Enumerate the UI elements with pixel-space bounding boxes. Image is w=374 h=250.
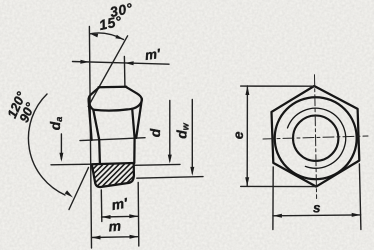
arrowheads dimension m prime bottom (102, 215, 111, 219)
svg-text:e: e (230, 131, 246, 139)
washer boss sides (98, 140, 101, 164)
thread major diameter arc (288, 108, 346, 168)
nut top face (99, 86, 127, 89)
chamfer corner right (126, 87, 142, 109)
extension line e top (241, 85, 315, 87)
svg-text:m′: m′ (144, 46, 162, 63)
angle dimension arc 120-90deg (28, 94, 65, 195)
lower inner slants (93, 110, 99, 140)
centerline vertical (315, 75, 317, 199)
bearing surface line (80, 138, 145, 141)
arrowhead 120-90 arc (65, 190, 73, 197)
svg-text:m: m (108, 217, 122, 234)
arrowheads dimension m (92, 236, 101, 240)
reference line d_w (137, 177, 203, 179)
dimension line s (273, 214, 361, 217)
lower outer corner slants (89, 101, 92, 140)
washer face top edge extended left (51, 163, 92, 166)
arrowheads dimension m prime top (80, 60, 89, 64)
chamfer face arc (94, 109, 133, 111)
chamfer circle (275, 97, 357, 179)
centerline horizontal (263, 136, 368, 139)
extension line left (m, m prime) (89, 27, 91, 249)
dimension line m prime top (73, 62, 170, 65)
arrowheads dimension e (245, 86, 249, 95)
chamfer angle construction line 30deg (88, 36, 127, 107)
leader arrow d_a (60, 134, 62, 159)
dimension line m (92, 236, 139, 239)
leader arrow d_w (191, 100, 193, 174)
extension line left (m prime bottom) (100, 190, 103, 222)
extension line e bottom (241, 185, 317, 187)
hexagon (272, 86, 360, 187)
reference line d (134, 163, 180, 166)
arrowhead d_a (59, 153, 63, 162)
dimension line m prime bottom (102, 215, 139, 218)
arrowhead d (168, 155, 172, 164)
chamfer corner left (89, 87, 100, 110)
arrowheads angle arc (90, 34, 98, 38)
angle dimension arc 15-30deg (90, 33, 124, 40)
leader arrow d (169, 101, 171, 162)
arrowheads dimension s (273, 214, 282, 218)
hole circle (293, 116, 338, 161)
arrowhead d_w (190, 167, 194, 176)
extension line right (m, m prime bottom) (137, 183, 140, 247)
dimension line e (246, 86, 248, 186)
svg-text:d: d (147, 128, 163, 137)
svg-text:s: s (313, 201, 321, 216)
extension line right (m prime top) (123, 57, 126, 87)
extension line s right (359, 164, 361, 230)
leader line washer cone (69, 168, 89, 210)
extension line s left (272, 167, 274, 230)
